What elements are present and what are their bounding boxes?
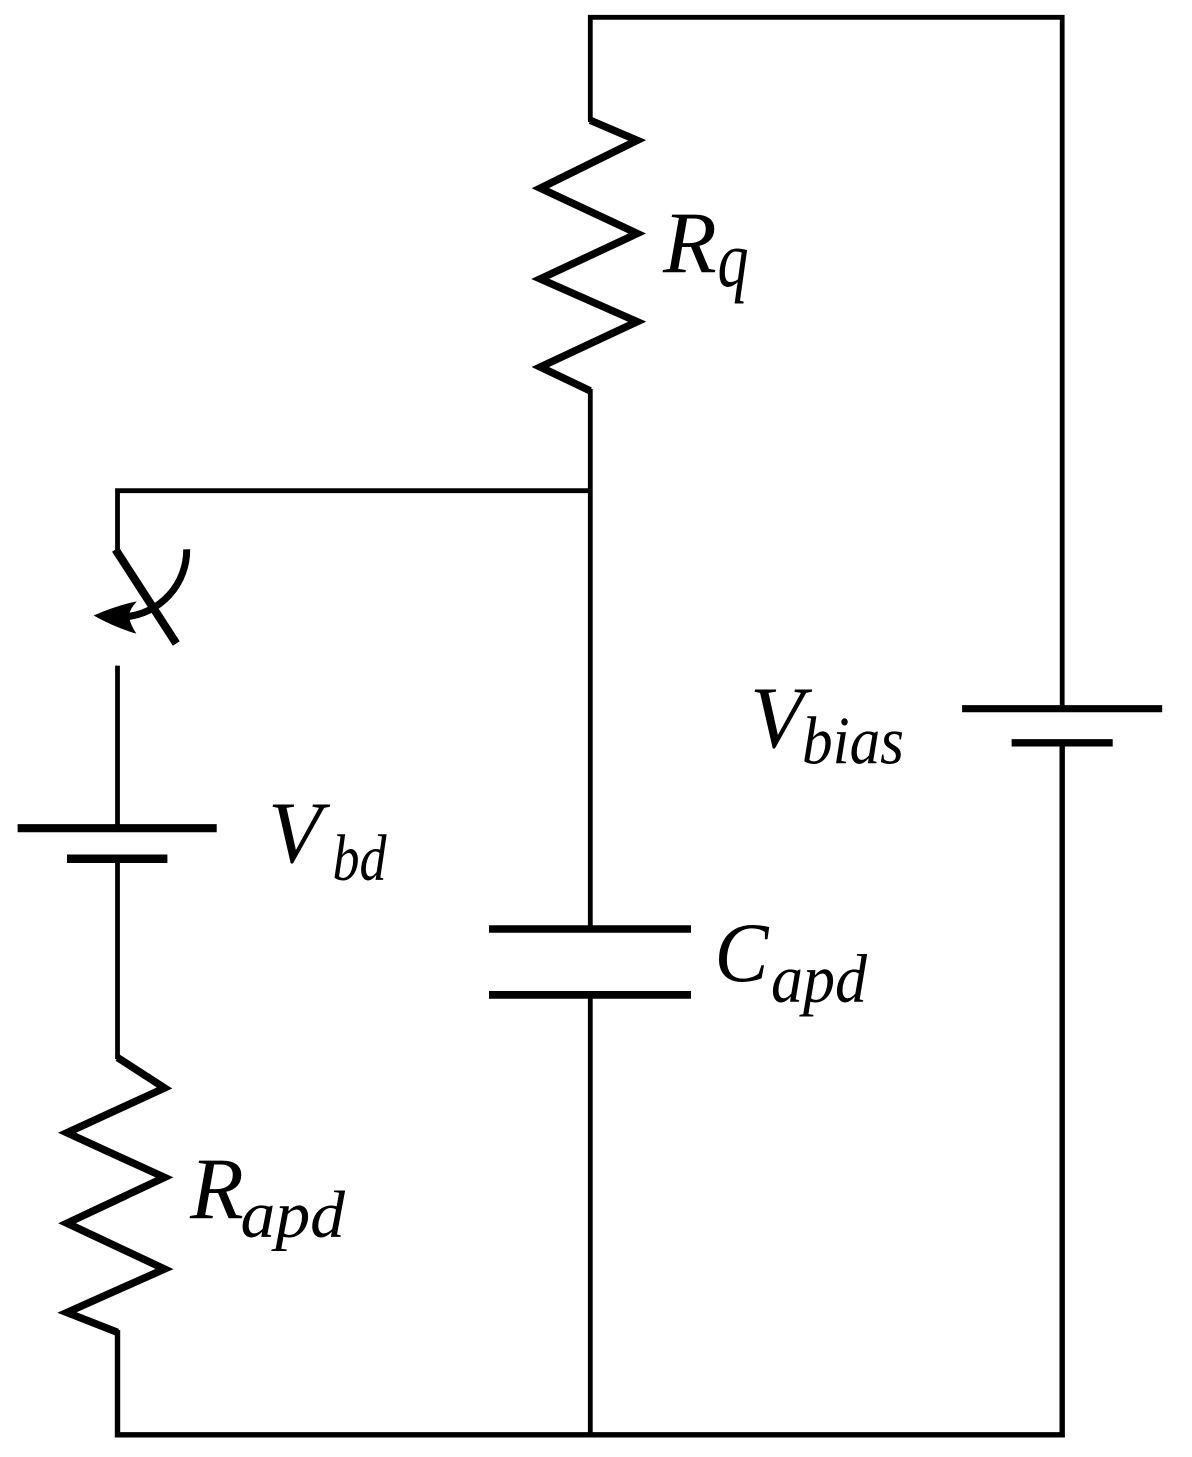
resistor Rq bbox=[540, 120, 637, 391]
svg-text:C: C bbox=[715, 906, 770, 1000]
wire: bottom rail from Rapd, across bottom, up right side to Vbias minus plate bbox=[118, 744, 1063, 1435]
wire: switch bottom to Vbd battery bbox=[115, 666, 120, 826]
battery Vbd long (+) plate bbox=[18, 824, 217, 832]
svg-text:bias: bias bbox=[802, 703, 904, 779]
switch S (open blade) bbox=[116, 550, 177, 644]
svg-text:R: R bbox=[189, 1142, 244, 1239]
svg-text:R: R bbox=[662, 196, 717, 293]
svg-text:V: V bbox=[268, 785, 331, 882]
wire top rail: from Rq top up, across to Vbias branch, down to Vbias plus plate bbox=[590, 17, 1062, 707]
wire: Capd bottom plate to bottom rail bbox=[588, 996, 593, 1437]
switch closing-direction arc bbox=[125, 549, 186, 617]
capacitor Capd bottom plate bbox=[489, 991, 691, 999]
wire: node A horizontal to left branch and down to switch bbox=[118, 491, 591, 550]
wire: middle vertical from Rq bottom through node A to Capd top plate bbox=[588, 389, 593, 927]
svg-text:bd: bd bbox=[333, 822, 388, 895]
svg-text:apd: apd bbox=[241, 1178, 346, 1252]
capacitor Capd top plate bbox=[489, 925, 691, 932]
battery Vbias long (+) plate bbox=[962, 705, 1162, 712]
wire: Vbd to Rapd bbox=[115, 861, 120, 1059]
svg-text:q: q bbox=[718, 215, 749, 305]
svg-text:apd: apd bbox=[771, 941, 867, 1017]
switch arrowhead bbox=[94, 601, 137, 633]
resistor Rapd bbox=[67, 1058, 165, 1333]
battery Vbd short (-) plate bbox=[67, 854, 167, 863]
battery Vbias short (-) plate bbox=[1012, 739, 1113, 746]
